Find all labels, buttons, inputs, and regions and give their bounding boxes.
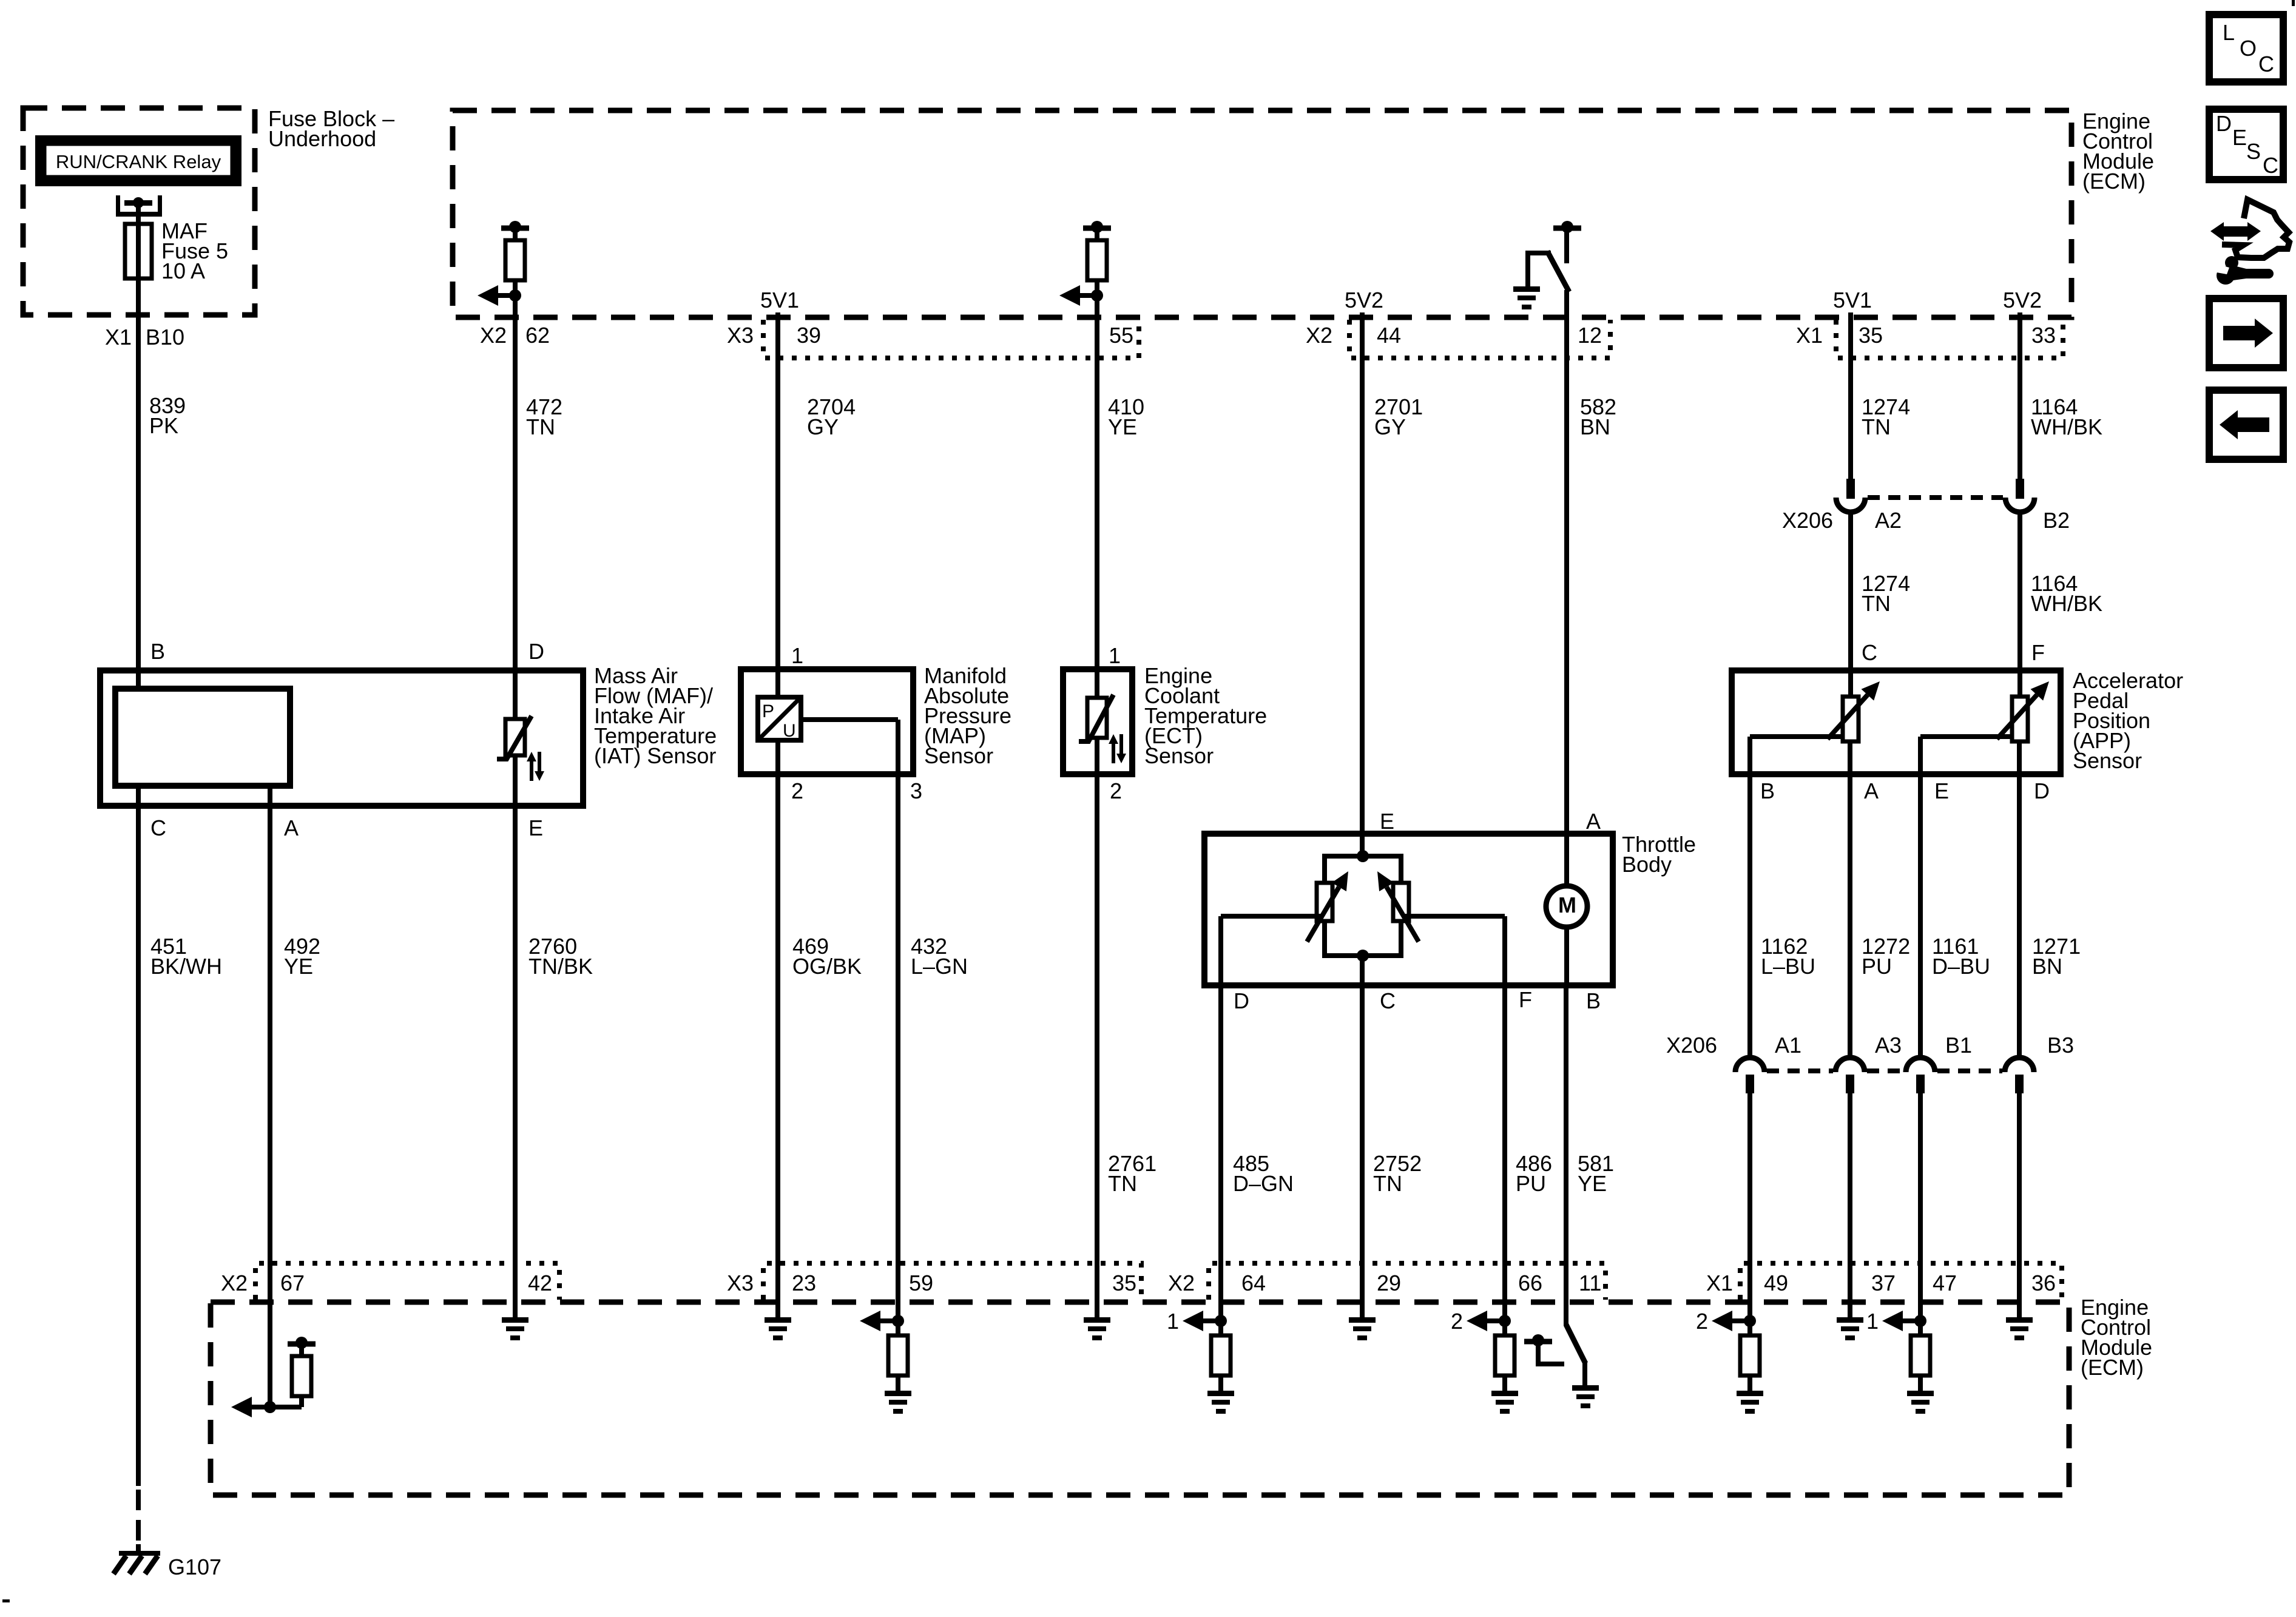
wire B-C through element: [136, 786, 141, 806]
wire 2701 label: [1374, 394, 1423, 439]
IAT thermistor: [497, 670, 544, 781]
pin 55 label: [1109, 323, 1133, 348]
wire 839 PK: [136, 279, 141, 670]
ECM signal arrow + pulldown at pin 59: [860, 1311, 911, 1414]
svg-text:B2: B2: [2043, 508, 2070, 533]
wire ECT to pin 2: [1095, 738, 1099, 774]
svg-text:B: B: [1760, 778, 1775, 803]
svg-text:B1: B1: [1945, 1033, 1972, 1058]
wire TPS2 to F: [1404, 914, 1507, 985]
svg-text:WH/BK: WH/BK: [2031, 414, 2102, 439]
svg-text:L–BU: L–BU: [1761, 954, 1815, 979]
svg-text:A: A: [1864, 778, 1879, 803]
svg-text:M: M: [1558, 893, 1576, 917]
wire 2760 label: [528, 934, 593, 979]
svg-text:D: D: [1234, 988, 1249, 1013]
svg-text:TN: TN: [1862, 414, 1891, 439]
svg-text:C: C: [1380, 988, 1396, 1013]
wire P/U to pin 2: [775, 740, 780, 774]
ECM signal arrow pin 55: [1059, 285, 1103, 306]
pin A label throttle: [1586, 809, 1601, 834]
fuse block label: [268, 106, 394, 151]
wire P/U to pin 3: [801, 717, 900, 774]
APP pot 2: [1997, 670, 2049, 774]
svg-text:TN: TN: [1108, 1171, 1137, 1196]
wire 2701 GY: [1360, 312, 1365, 834]
pin D label throttle: [1234, 988, 1249, 1013]
wire 2752 TN: [1360, 985, 1365, 1317]
pin 29 label: [1377, 1271, 1401, 1295]
svg-text:D: D: [528, 639, 544, 664]
pin F label APP: [2031, 640, 2045, 665]
relay terminal bracket: [116, 195, 162, 217]
wire 1164 WH/BK lower: [2017, 512, 2022, 670]
ECM ground at pin 35: [1084, 1317, 1110, 1340]
svg-text:66: 66: [1518, 1271, 1542, 1295]
svg-text:YE: YE: [1578, 1171, 1607, 1196]
icon forward arrow box: [2209, 299, 2283, 368]
svg-text:5V2: 5V2: [1345, 288, 1383, 312]
ECM top dashed box: [453, 110, 2071, 317]
pin 59 label: [909, 1271, 933, 1295]
pin 47 label: [1933, 1271, 1957, 1295]
APP sensor box: [1732, 670, 2061, 774]
throttle body box: [1204, 834, 1613, 985]
svg-text:TN: TN: [1373, 1171, 1402, 1196]
wire 469 OG/BK: [775, 774, 780, 1317]
wire pin1 into P/U: [775, 669, 780, 697]
ECM bottom dashed box: [211, 1302, 2069, 1495]
pin box X2 top row: [1349, 320, 1610, 358]
ground G107 label: [168, 1555, 221, 1579]
svg-text:A3: A3: [1875, 1033, 1902, 1058]
svg-text:D: D: [2216, 111, 2232, 136]
svg-text:D–GN: D–GN: [1233, 1171, 1294, 1196]
svg-text:1: 1: [791, 643, 803, 668]
icon LOC box: [2209, 15, 2283, 82]
ECM switch ground: [1513, 286, 1540, 309]
svg-text:F: F: [2031, 640, 2045, 665]
pin C label APP: [1862, 640, 1877, 665]
ECM signal 2 + pulldown at pin 66: [1451, 1309, 1518, 1414]
svg-text:TN/BK: TN/BK: [528, 954, 593, 979]
svg-text:C: C: [2258, 52, 2274, 76]
wire 432 label: [911, 934, 968, 979]
MAF/IAT sensor box: [100, 670, 583, 806]
APP pot 1: [1828, 670, 1880, 774]
svg-text:TN: TN: [526, 414, 555, 439]
pin 33 label: [2031, 323, 2056, 348]
wire A from element: [268, 786, 272, 806]
svg-text:E: E: [1934, 778, 1949, 803]
svg-text:10 A: 10 A: [161, 258, 205, 283]
pin box X1 bottom: [1740, 1263, 2062, 1300]
ECM ground at pin 36: [2006, 1317, 2033, 1340]
pin box X3 top row: [763, 320, 1139, 358]
connector X206 pin B3: [2005, 1058, 2034, 1093]
svg-text:F: F: [1519, 987, 1532, 1012]
throttle motor M: [1546, 886, 1587, 927]
pin 66 label: [1518, 1271, 1542, 1295]
svg-text:B10: B10: [146, 325, 184, 349]
svg-text:5V1: 5V1: [760, 288, 799, 312]
ECM ground below pin 11 switch: [1572, 1385, 1599, 1408]
fuse F MAF Fuse 5 10A: [125, 224, 152, 279]
svg-text:BK/WH: BK/WH: [150, 954, 222, 979]
pin A label APP: [1864, 778, 1879, 803]
svg-text:X1: X1: [105, 325, 132, 349]
wire 1164 label upper: [2031, 394, 2102, 439]
wire D to TPS1: [1218, 914, 1322, 985]
pin X3 39 label: [727, 323, 821, 348]
wire 492 YE: [268, 806, 272, 1407]
pin 36 label: [2031, 1271, 2056, 1295]
ECT pin 1 label: [1109, 643, 1121, 668]
svg-text:29: 29: [1377, 1271, 1401, 1295]
svg-text:37: 37: [1871, 1271, 1896, 1295]
connector X206 pin A2: [1836, 479, 1865, 512]
svg-text:1: 1: [1866, 1309, 1879, 1334]
pin E label: [528, 815, 543, 840]
MAP sensor box: [741, 669, 913, 774]
pin box X1 top row: [1836, 320, 2063, 358]
wire to G107 dashed: [136, 1490, 141, 1544]
svg-text:OG/BK: OG/BK: [792, 954, 862, 979]
svg-text:2: 2: [1451, 1309, 1463, 1334]
wire 472 label: [526, 394, 562, 439]
svg-text:D–BU: D–BU: [1932, 954, 1990, 979]
svg-text:PK: PK: [149, 413, 178, 438]
wire 485 label: [1233, 1151, 1294, 1196]
svg-text:X206: X206: [1666, 1033, 1717, 1058]
wire 472 TN: [513, 295, 518, 670]
svg-text:A2: A2: [1875, 508, 1902, 533]
net 5V1 label at pin 39: [760, 288, 799, 312]
wire 1271 BN upper: [2017, 774, 2022, 1058]
relay output node: [124, 197, 152, 208]
wire 1161 D-BU lower: [1918, 1093, 1923, 1321]
svg-text:X3: X3: [727, 1271, 754, 1295]
svg-text:11: 11: [1579, 1271, 1601, 1295]
pin B label throttle: [1586, 988, 1601, 1013]
svg-text:B: B: [1586, 988, 1601, 1013]
throttle body label: [1622, 832, 1696, 877]
wire 2761 TN: [1095, 774, 1099, 1317]
svg-text:B: B: [150, 639, 165, 664]
svg-text:2: 2: [1110, 778, 1122, 803]
svg-text:X1: X1: [1796, 323, 1823, 348]
icon back arrow box: [2209, 390, 2283, 459]
wire 1274 label lower: [1862, 571, 1910, 616]
pin X2 62 label: [480, 323, 550, 348]
net 5V2 label at pin 44: [1345, 288, 1383, 312]
svg-text:C: C: [150, 815, 166, 840]
pin 12 label: [1578, 323, 1602, 348]
svg-text:(ECM): (ECM): [2082, 169, 2146, 194]
wire 1272 PU upper: [1848, 774, 1852, 1058]
ECM signal 2 + pulldown at pin 49: [1696, 1309, 1763, 1414]
net 5V2 label at pin 33: [2003, 288, 2042, 312]
svg-text:E: E: [1380, 809, 1394, 834]
wire E branch: [1918, 734, 2012, 774]
pin B label APP: [1760, 778, 1775, 803]
svg-text:G107: G107: [168, 1555, 221, 1579]
wire 2761 label: [1108, 1151, 1156, 1196]
svg-text:2: 2: [791, 778, 803, 803]
ECM signal arrow pin 62: [478, 285, 521, 306]
svg-text:U: U: [783, 721, 796, 741]
svg-text:L–GN: L–GN: [911, 954, 968, 979]
pin box X2 bottom left: [255, 1263, 559, 1300]
wire 1162 label: [1761, 934, 1815, 979]
TPS sensor 2: [1377, 871, 1419, 942]
pin A label: [284, 815, 299, 840]
svg-text:67: 67: [280, 1271, 305, 1295]
wire 469 label: [792, 934, 862, 979]
wire 2752 label: [1373, 1151, 1422, 1196]
svg-text:64: 64: [1241, 1271, 1266, 1295]
pin 37 label: [1871, 1271, 1896, 1295]
svg-text:GY: GY: [1374, 414, 1406, 439]
net 5V1 label at pin 35: [1833, 288, 1872, 312]
fuse block - underhood dashed box: [23, 108, 255, 315]
relay label: [56, 151, 221, 172]
wire 486 label: [1516, 1151, 1552, 1196]
ECM switch at pin 11: [1524, 1325, 1587, 1385]
wire 1162 L-BU upper: [1747, 774, 1752, 1058]
svg-text:BN: BN: [2032, 954, 2062, 979]
svg-text:L: L: [2223, 20, 2235, 45]
pin 42 label: [528, 1271, 552, 1295]
svg-text:42: 42: [528, 1271, 552, 1295]
connector X206 pin B1: [1906, 1058, 1935, 1093]
connector X206 upper label: [1782, 508, 2070, 533]
ECM pullup resistor at pin 62: [501, 221, 529, 295]
svg-text:Underhood: Underhood: [268, 126, 376, 151]
MAP sensor label: [924, 663, 1011, 768]
wire 451 label: [150, 934, 222, 979]
wire E to bridge: [1360, 834, 1365, 856]
wire B branch: [1747, 734, 1843, 774]
svg-text:BN: BN: [1580, 414, 1610, 439]
connector X206 lower dashes: [1767, 1068, 2002, 1073]
svg-text:49: 49: [1764, 1271, 1788, 1295]
wire motor to pin B: [1564, 927, 1569, 985]
pin D label: [528, 639, 544, 664]
wire 451 BK/WH: [136, 806, 141, 1486]
ECM ground at pin 37: [1837, 1317, 1863, 1340]
svg-text:PU: PU: [1516, 1171, 1546, 1196]
ECM bottom label: [2081, 1295, 2152, 1380]
pin C label: [150, 815, 166, 840]
svg-text:YE: YE: [284, 954, 313, 979]
wire 582 label: [1580, 394, 1616, 439]
svg-text:5V2: 5V2: [2003, 288, 2042, 312]
wire 410 YE: [1095, 295, 1099, 669]
wire 2704 GY: [775, 312, 780, 669]
ECM ground at pin 23: [765, 1317, 791, 1340]
wire into pin B: [136, 670, 141, 689]
svg-text:Sensor: Sensor: [924, 743, 993, 768]
svg-text:X1: X1: [1706, 1271, 1733, 1295]
wire 485 D-GN: [1218, 985, 1223, 1321]
wire 581 YE: [1564, 985, 1568, 1326]
svg-text:62: 62: [525, 323, 550, 348]
connector X206 pin A1: [1735, 1058, 1764, 1093]
svg-text:44: 44: [1377, 323, 1401, 348]
page mark top right: [2292, 0, 2295, 6]
svg-text:YE: YE: [1108, 414, 1137, 439]
ECM pullup resistor at pin 55: [1083, 221, 1111, 295]
pin E label APP: [1934, 778, 1949, 803]
icon service hand: [2222, 200, 2289, 258]
svg-text:A: A: [284, 815, 299, 840]
wire 1274 TN lower: [1848, 512, 1853, 670]
svg-text:C: C: [2263, 153, 2278, 178]
wire 1271 BN lower: [2017, 1093, 2022, 1317]
icon service double arrow: [2210, 222, 2261, 241]
pin X1 49 label: [1706, 1271, 1788, 1295]
MAP pin 3 label: [910, 778, 922, 803]
svg-text:(IAT) Sensor: (IAT) Sensor: [594, 743, 716, 768]
wire 1274 TN upper: [1848, 312, 1853, 479]
wire bridge to pin C: [1360, 956, 1365, 985]
ECM signal 1 + pulldown at pin 47: [1866, 1309, 1934, 1414]
svg-text:36: 36: [2031, 1271, 2056, 1295]
wire 2704 label: [807, 394, 856, 439]
svg-text:X2: X2: [480, 323, 507, 348]
svg-text:P: P: [762, 701, 774, 721]
svg-text:X2: X2: [1168, 1271, 1195, 1295]
pin box X2 bottom mid: [1209, 1263, 1606, 1300]
svg-text:3: 3: [910, 778, 922, 803]
svg-text:E: E: [528, 815, 543, 840]
pin 35b label: [1112, 1271, 1136, 1295]
pin C label throttle: [1380, 988, 1396, 1013]
svg-text:Sensor: Sensor: [2073, 748, 2142, 773]
connector X206 upper dashes: [1868, 495, 2003, 500]
pin X1 35 label: [1796, 323, 1883, 348]
MAP P/U transducer: [758, 697, 801, 741]
wire 582 BN: [1564, 290, 1569, 834]
wire 1272 label: [1862, 934, 1910, 979]
svg-text:O: O: [2240, 36, 2257, 61]
svg-text:WH/BK: WH/BK: [2031, 591, 2102, 616]
wire 432 L-GN: [896, 774, 900, 1321]
svg-text:39: 39: [797, 323, 821, 348]
wire A to motor: [1564, 834, 1569, 886]
svg-text:55: 55: [1109, 323, 1133, 348]
ECM ground at pin 42: [502, 1317, 528, 1340]
wire 581 label: [1578, 1151, 1614, 1196]
page mark bottom left: [2, 1599, 10, 1602]
connector X206 lower label: [1666, 1033, 2074, 1058]
connector X206 pin B2: [2005, 479, 2034, 512]
wire IAT to pin E: [513, 755, 518, 806]
svg-text:D: D: [2034, 778, 2050, 803]
svg-text:23: 23: [792, 1271, 816, 1295]
pin X2 67 label: [221, 1271, 305, 1295]
TPS bridge: [1325, 850, 1401, 962]
pin F label throttle: [1519, 987, 1532, 1012]
wire relay to fuse: [136, 203, 141, 226]
MAF sensor label: [594, 663, 717, 768]
ECT sensor label: [1144, 663, 1267, 768]
fuse label: [161, 218, 228, 283]
svg-text:(ECM): (ECM): [2081, 1355, 2144, 1380]
wire 1162 L-BU lower: [1747, 1093, 1752, 1321]
APP sensor label: [2073, 668, 2183, 773]
ECM internal switch at pin 12: [1525, 221, 1581, 292]
svg-text:C: C: [1862, 640, 1877, 665]
pin X3 23 label: [727, 1271, 816, 1295]
svg-text:X2: X2: [221, 1271, 248, 1295]
svg-text:35: 35: [1859, 323, 1883, 348]
svg-text:E: E: [2232, 125, 2247, 150]
wire 1161 D-BU upper: [1918, 774, 1923, 1058]
svg-text:1: 1: [1109, 643, 1121, 668]
pin D label APP: [2034, 778, 2050, 803]
wire 2760 TN/BK: [513, 806, 518, 1317]
wire 1271 label: [2032, 934, 2081, 979]
svg-text:TN: TN: [1862, 591, 1891, 616]
wire 839 label: [149, 393, 186, 438]
icon service wrench: [2210, 256, 2274, 285]
ECT pin 2 label: [1110, 778, 1122, 803]
svg-text:GY: GY: [807, 414, 839, 439]
svg-text:1: 1: [1167, 1309, 1179, 1334]
svg-text:A: A: [1586, 809, 1601, 834]
TPS sensor 1: [1307, 871, 1348, 942]
ECM top label: [2082, 109, 2154, 194]
svg-text:33: 33: [2031, 323, 2056, 348]
svg-text:35: 35: [1112, 1271, 1136, 1295]
svg-text:B3: B3: [2047, 1033, 2074, 1058]
ground G107: [113, 1544, 160, 1574]
svg-text:47: 47: [1933, 1271, 1957, 1295]
wire 1164 WH/BK upper: [2017, 312, 2022, 479]
svg-text:X206: X206: [1782, 508, 1833, 533]
svg-text:2: 2: [1696, 1309, 1708, 1334]
MAP pin 2 label: [791, 778, 803, 803]
wire 410 label: [1108, 394, 1144, 439]
pin X2 44 label: [1306, 323, 1401, 348]
pin 11 label: [1579, 1271, 1601, 1295]
svg-text:S: S: [2246, 139, 2261, 164]
pin E label throttle: [1380, 809, 1394, 834]
ECM pullup resistor right of pin 67: [270, 1337, 316, 1409]
ECT thermistor: [1079, 669, 1126, 763]
relay K RUN/CRANK box: [35, 135, 241, 186]
wire 1274 label upper: [1862, 394, 1910, 439]
svg-text:12: 12: [1578, 323, 1602, 348]
svg-text:X2: X2: [1306, 323, 1332, 348]
svg-text:RUN/CRANK Relay: RUN/CRANK Relay: [56, 151, 221, 172]
pin X2 64 label: [1168, 1271, 1266, 1295]
pin box X3 bottom: [763, 1263, 1141, 1300]
svg-text:Sensor: Sensor: [1144, 743, 1214, 768]
pin B label: [150, 639, 165, 664]
wire 1272 PU lower: [1848, 1093, 1852, 1317]
wire 1164 label lower: [2031, 571, 2102, 616]
ECM signal 1 + pulldown at pin 64: [1167, 1309, 1234, 1414]
MAP pin 1 label: [791, 643, 803, 668]
wire 492 label: [284, 934, 320, 979]
svg-text:PU: PU: [1862, 954, 1892, 979]
ECT sensor box: [1063, 669, 1132, 774]
icon DESC box: [2209, 109, 2283, 180]
ECM node at pin 67: [231, 1397, 276, 1417]
